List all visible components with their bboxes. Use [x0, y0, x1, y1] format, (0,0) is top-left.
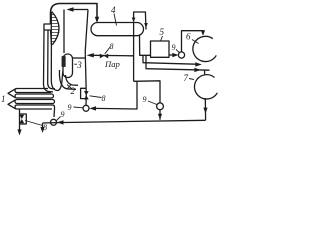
svg-text:1: 1	[1, 94, 6, 104]
svg-text:8: 8	[102, 94, 106, 103]
economizer coil 1 tube 1	[15, 89, 51, 93]
label 7 with dash leader	[189, 79, 194, 80]
boiler drum left wall and swan-neck top	[51, 4, 98, 25]
svg-text:6: 6	[186, 32, 191, 42]
riser line from drum-top steam line down to steam header	[85, 10, 88, 55]
svg-text:5: 5	[160, 27, 165, 37]
pump 7 circle (open right)	[194, 75, 217, 99]
downcomer inner line from stub to economizer	[48, 30, 55, 89]
coil drain bypass loop	[20, 114, 27, 124]
steam line into drum top with left arrow	[73, 9, 88, 11]
label 3 with dash	[74, 63, 77, 65]
hatched heating crescent left boundary	[50, 12, 52, 45]
svg-text:9: 9	[143, 95, 147, 104]
pump 6 circle (open right)	[193, 36, 216, 61]
svg-text:3: 3	[76, 60, 82, 70]
downcomer elbow 2 inner curve	[59, 70, 76, 89]
arrow at right loop leg	[144, 23, 148, 28]
hatched heating crescent curved boundary	[52, 12, 59, 45]
economizer coil 1 tube 2	[15, 94, 54, 98]
crescent hatch lines	[51, 15, 59, 42]
svg-text:7: 7	[184, 73, 189, 83]
downcomer outer line from stub to economizer	[44, 30, 54, 92]
condensate drop from deaerator to treatment box	[140, 36, 151, 56]
drain manifold from steam header drop	[134, 81, 160, 103]
label 4 with leader	[114, 14, 117, 26]
coil drain pipe down from tube 4	[19, 110, 21, 131]
stub from line 2 into pump 7	[204, 70, 206, 74]
separator 3 steam link to riser	[73, 57, 86, 59]
pump 7 discharge down to drain line with arrow	[204, 98, 206, 120]
svg-text:9.: 9.	[172, 43, 178, 52]
svg-text:8: 8	[110, 42, 114, 51]
left end of drain line turning down with arrow	[42, 123, 44, 131]
coil drain outlet arrow	[17, 129, 21, 135]
left stub nozzle on drum	[44, 24, 51, 30]
feed line 2 to pump 7 with right arrow	[146, 56, 210, 70]
label 9 near right drain valve with leader	[148, 101, 157, 105]
label 6 with leader	[192, 40, 199, 44]
label 9 near left drain valve with leader	[57, 117, 61, 121]
downcomer elbow 2 outer curve	[66, 75, 79, 85]
drum right wall	[63, 10, 65, 54]
steam valve 8 bowtie on header	[100, 54, 108, 59]
svg-text:Пар: Пар	[104, 59, 121, 69]
svg-text:9: 9	[68, 103, 72, 112]
control valve 8 bowtie on blowdown line	[84, 91, 89, 99]
drum bottom arc	[51, 71, 63, 91]
drain run from valve 9 to drain riser with left arrow	[95, 81, 138, 109]
arrow into pump 6	[201, 30, 205, 36]
valve circle 9 before drain line	[157, 103, 164, 110]
blowdown line from riser down to valve	[85, 55, 86, 106]
arrow into left valve 9	[57, 120, 64, 124]
riser loop from valve 9 over to pump 6	[182, 31, 204, 52]
coil U-bend chevron upper	[8, 89, 16, 98]
separator vessel 3	[63, 54, 73, 78]
svg-text:8: 8	[43, 123, 47, 132]
stub from valve 9 down to drain line with arrow	[159, 110, 161, 120]
label 9 near center drain valve with leader	[74, 106, 83, 109]
valve 8 leader	[105, 47, 111, 54]
water treatment box 5	[151, 41, 170, 57]
bypass loop at control valve 8	[81, 88, 86, 98]
deaerator vessel 4	[91, 23, 144, 36]
drain valve circle 9 (center)	[83, 105, 89, 111]
coil drain valve 8 leader	[25, 121, 43, 126]
box 5 outlet with right arrow into valve 9	[169, 54, 173, 56]
cross mark at elbow 2	[67, 84, 72, 89]
label 5 with leader	[161, 36, 163, 41]
arrow into deaerator from loop	[132, 18, 136, 23]
control valve 8 leader	[90, 96, 102, 98]
valve circle 9 at box outlet	[178, 52, 184, 58]
drum left wall lower part	[50, 30, 53, 80]
steam pipe arrow into deaerator 4 top	[95, 17, 99, 23]
economizer coil 1 tube 3	[15, 100, 55, 104]
water feed loop over deaerator 4	[134, 12, 146, 30]
feed line 1 to pumps with right arrow	[143, 56, 196, 64]
economizer coil 1 tube 4	[15, 105, 55, 117]
svg-text:9: 9	[61, 110, 65, 119]
coil U-bend chevron lower	[8, 100, 16, 109]
gauge glass on separator 3	[62, 57, 65, 67]
svg-text:4: 4	[111, 5, 116, 15]
steam header line (Par) with left arrow	[94, 54, 134, 57]
coil drain valve 8 bowtie	[19, 115, 24, 123]
steam supply drop from deaerator to header	[133, 23, 135, 82]
drain valve circle 9 (left)	[51, 119, 57, 125]
svg-text:2: 2	[71, 86, 76, 96]
main bottom drain line	[43, 120, 206, 123]
label 9 near box outlet valve with leader	[177, 50, 180, 53]
